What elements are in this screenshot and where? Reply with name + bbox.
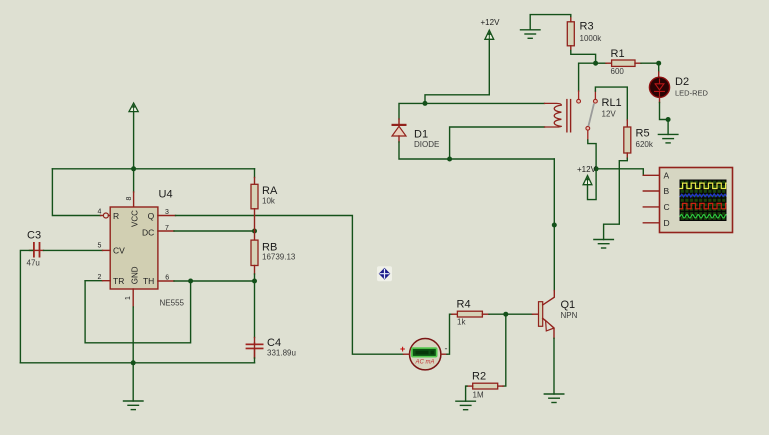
node: ground junction <box>131 360 136 365</box>
svg-text:Q: Q <box>148 211 155 221</box>
power terminal (top-left, unlabeled) <box>129 103 138 112</box>
svg-text:B: B <box>664 186 670 196</box>
power terminal +12V (top middle) <box>485 30 494 39</box>
R5 bottom lead <box>626 153 628 158</box>
wire: LED to ground <box>660 103 669 135</box>
wire: pin 2 TR <box>85 280 102 282</box>
wire: +12V node to oscilloscope channel A <box>596 169 643 176</box>
resistor RA <box>251 184 258 209</box>
wire: R3 bottom to R1 node <box>571 51 596 64</box>
wire: top horizontal rail <box>52 168 254 170</box>
wire: collector rail down to Q1 <box>553 159 555 291</box>
R1 left lead <box>606 62 612 64</box>
Q1 emitter pin <box>543 318 554 338</box>
wire: C4 to bottom rail <box>254 358 256 363</box>
node: D1 bottom junction <box>447 157 452 162</box>
ammeter display <box>411 347 438 357</box>
node: VCC rail junction <box>131 166 136 171</box>
resistor R4 <box>457 311 482 317</box>
contact throw pin stub <box>594 91 596 99</box>
wire: ground drop <box>132 363 134 401</box>
svg-text:RA: RA <box>262 185 278 197</box>
svg-text:D: D <box>664 218 670 228</box>
svg-text:-: - <box>445 344 448 354</box>
wire: VCC node down to U4 pin 8 <box>133 169 135 192</box>
contact common pin stub <box>587 130 589 140</box>
pin 5 stub <box>103 249 111 251</box>
pin 1 stub <box>132 289 134 307</box>
wire: C3 left plate to left rail down to bottom rail <box>20 250 32 362</box>
svg-text:R5: R5 <box>636 128 650 140</box>
resistor R5 <box>624 127 631 153</box>
node: LED top junction <box>656 61 661 66</box>
svg-text:RL1: RL1 <box>602 97 622 109</box>
wire: RB lead to TH node <box>254 274 256 281</box>
wire: ammeter to R4 <box>447 314 452 354</box>
svg-text:Q1: Q1 <box>561 299 576 311</box>
svg-text:+: + <box>400 344 405 354</box>
pin 4 outer stub <box>101 215 104 217</box>
svg-text:600: 600 <box>611 67 625 76</box>
oscilloscope pin D stub <box>643 222 659 224</box>
wire: left loop down to pin 4 <box>52 169 100 216</box>
ammeter - terminal stub <box>441 353 447 355</box>
svg-text:+12V: +12V <box>577 165 597 174</box>
svg-text:LED-RED: LED-RED <box>675 89 709 98</box>
wire: R1 node to contact pole <box>579 63 596 91</box>
wire: R3 top to ground <box>530 15 571 30</box>
wire: rail corner to RA top <box>254 169 256 178</box>
svg-text:R3: R3 <box>580 21 594 33</box>
svg-text:U4: U4 <box>159 189 173 201</box>
relay RL1 coil <box>545 103 562 127</box>
wire: pin 1 GND to bottom rail <box>132 307 134 363</box>
wire: D1 anode to Q1 collector rail <box>399 142 554 159</box>
Q1 base stub <box>533 313 539 315</box>
ammeter (AC mA) <box>410 339 441 370</box>
relay RL1 contact throw (top right) <box>594 99 598 103</box>
pin 2 stub <box>103 280 111 282</box>
resistor R1 <box>612 60 635 66</box>
svg-text:1000k: 1000k <box>580 34 603 43</box>
origin marker <box>377 266 392 281</box>
wire: R2 to ground <box>466 386 467 401</box>
svg-text:1: 1 <box>125 296 132 300</box>
wire: +12V terminal to D1 top node <box>425 39 489 103</box>
oscilloscope body <box>660 168 733 233</box>
wire: C3 right plate to pin 5 <box>44 249 103 251</box>
wire: contact throw up to R5 <box>595 87 627 120</box>
oscilloscope pin C stub <box>643 206 659 208</box>
svg-text:47u: 47u <box>27 259 40 268</box>
wire: R4 to Q1 base <box>489 313 533 315</box>
wire: R1 to LED node <box>641 62 659 64</box>
wire: coil bottom return <box>450 127 545 159</box>
ground (LED) <box>658 134 678 143</box>
svg-text:C4: C4 <box>267 337 281 349</box>
relay RL1 core bars <box>567 100 571 132</box>
node: TH-RB-C4 junction <box>252 279 257 284</box>
pin 8 stub <box>133 192 135 207</box>
svg-text:2: 2 <box>98 274 102 281</box>
svg-text:5: 5 <box>98 243 102 250</box>
svg-text:R2: R2 <box>472 371 486 383</box>
wire: node down to LED <box>658 63 660 72</box>
wire: pin 7 DC to RA/RB junction <box>174 230 255 232</box>
contact pole pin stub <box>578 91 580 99</box>
resistor RB <box>251 240 258 265</box>
pin 4 stub <box>108 215 110 217</box>
wire: pin 6 TH to RB bottom <box>174 280 255 282</box>
R4 right lead <box>482 313 489 315</box>
oscilloscope trace B (blue noisy wave) <box>680 194 727 197</box>
node: base junction <box>503 312 508 317</box>
transistor Q1 (NPN) <box>539 302 543 327</box>
oscilloscope trace D (green sine wave) <box>680 215 728 218</box>
relay RL1 contact pole (top left) <box>577 99 581 103</box>
node: D1 top junction <box>423 101 428 106</box>
svg-text:TH: TH <box>143 276 154 286</box>
RA top lead <box>254 178 256 185</box>
R2 right lead <box>498 385 503 387</box>
svg-text:CV: CV <box>113 246 125 256</box>
svg-text:8: 8 <box>126 197 133 201</box>
ground (555 circuit) <box>124 401 144 410</box>
node: R1 left junction <box>593 61 598 66</box>
svg-text:R4: R4 <box>457 299 471 311</box>
svg-text:R: R <box>113 211 119 221</box>
svg-text:12V: 12V <box>602 110 617 119</box>
capacitor C3 <box>30 242 44 258</box>
svg-text:A: A <box>664 171 670 181</box>
oscilloscope trace A (yellow square wave) <box>680 183 730 188</box>
svg-text:NPN: NPN <box>561 311 578 320</box>
R5 top lead <box>626 120 628 127</box>
LED D2 cathode lead <box>659 97 661 103</box>
D1 cathode lead <box>398 119 400 124</box>
pin 7 stub <box>158 230 174 232</box>
wire: base node down to R2 <box>503 314 506 386</box>
capacitor C4 <box>246 343 264 358</box>
wire: TH node down to C4 <box>254 281 256 338</box>
oscilloscope pin A stub <box>643 174 659 176</box>
wire: contact common down to +12V node <box>588 140 596 169</box>
Q1 collector pin <box>543 291 555 305</box>
ground (R2) <box>456 401 476 410</box>
wire: R5 bottom to ground (steps) <box>604 158 628 239</box>
wire: emitter to ground <box>553 338 555 394</box>
svg-text:D1: D1 <box>414 129 428 141</box>
wire: TR-TH loop below chip <box>85 281 191 343</box>
ammeter + terminal stub <box>404 353 410 355</box>
oscilloscope screen <box>680 180 727 222</box>
svg-text:NE555: NE555 <box>160 299 185 308</box>
pin 4 bubble <box>103 213 108 218</box>
RA bottom lead <box>254 209 256 231</box>
svg-text:331.89u: 331.89u <box>267 349 296 358</box>
oscilloscope pin B stub <box>643 190 659 192</box>
svg-text:D2: D2 <box>675 76 689 88</box>
svg-text:TR: TR <box>113 276 124 286</box>
ground (R5 path) <box>594 240 614 249</box>
pin 6 stub <box>158 280 174 282</box>
svg-text:1M: 1M <box>473 391 484 400</box>
R2 left lead <box>467 385 473 387</box>
svg-text:10k: 10k <box>262 197 276 206</box>
relay RL1 contact common (bottom) <box>586 126 590 130</box>
wire: power terminal to VCC node <box>133 112 135 169</box>
wire: bottom rail <box>20 362 254 364</box>
node: LED ground corner <box>666 117 671 122</box>
svg-text:C: C <box>664 202 670 212</box>
svg-text:R1: R1 <box>611 48 625 60</box>
R3 bottom lead <box>570 46 572 51</box>
wire: D1 top to relay coil top <box>399 103 545 119</box>
resistor R2 <box>473 383 498 389</box>
node: DC junction <box>252 229 257 234</box>
node: collector rail junction <box>552 223 557 228</box>
relay RL1 switch arm <box>589 104 594 125</box>
svg-text:AC mA: AC mA <box>414 360 434 366</box>
wire: node to R1 <box>596 62 606 64</box>
oscilloscope screen grid <box>680 180 726 221</box>
D1 anode lead <box>398 136 400 142</box>
ground (R3) <box>521 30 541 39</box>
power terminal +12V (relay node) <box>583 176 592 185</box>
svg-text:16739.13: 16739.13 <box>262 253 296 262</box>
svg-text:VCC: VCC <box>130 210 139 227</box>
svg-text:GND: GND <box>130 266 139 284</box>
svg-text:DIODE: DIODE <box>414 140 439 149</box>
R1 right lead <box>635 62 641 64</box>
svg-text:6: 6 <box>165 274 169 281</box>
svg-text:4: 4 <box>98 209 102 216</box>
svg-text:DC: DC <box>142 227 154 237</box>
svg-text:C3: C3 <box>27 230 41 242</box>
node: +12V relay junction <box>594 166 599 171</box>
C4 bottom lead <box>254 349 256 358</box>
R4 left lead <box>452 313 457 315</box>
wire: pin 3 Q output to ammeter <box>176 216 404 355</box>
wire: +12V terminal stem to node <box>588 169 597 200</box>
Q1 emitter arrow <box>546 321 554 331</box>
IC U4 (NE555) body <box>110 207 158 289</box>
RB top lead <box>254 231 256 240</box>
R3 top lead <box>570 17 572 22</box>
diode D1 <box>392 124 407 136</box>
node: TR-TH junction <box>188 279 193 284</box>
C4 top lead <box>254 338 256 344</box>
svg-text:+12V: +12V <box>481 18 501 27</box>
LED D2 anode lead <box>658 72 660 77</box>
oscilloscope trace C (red square wave) <box>680 203 730 208</box>
svg-text:620k: 620k <box>636 140 654 149</box>
RB bottom lead <box>254 266 256 275</box>
pin 3 stub <box>158 215 176 217</box>
resistor R3 <box>567 22 574 46</box>
svg-text:1k: 1k <box>457 318 466 327</box>
ground (Q1 emitter) <box>544 394 564 403</box>
LED D2 (LED-RED) <box>649 77 669 97</box>
